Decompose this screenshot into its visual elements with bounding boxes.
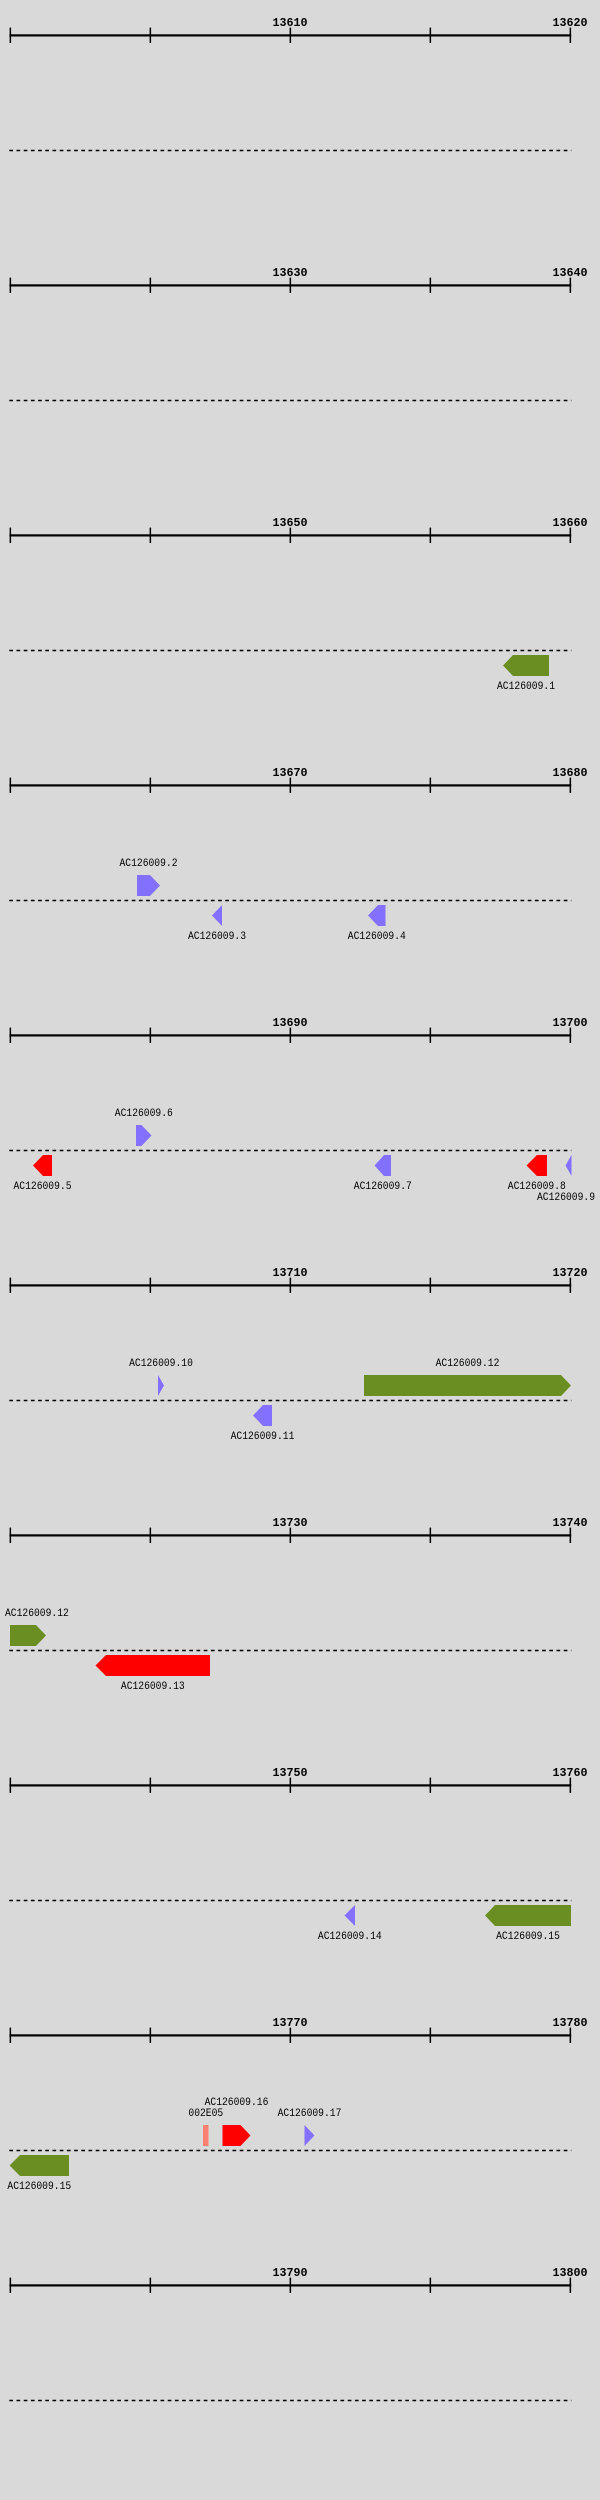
feature AC126009.3 (purple, reverse strand) [212, 905, 222, 926]
panel 10 ruler line and ticks [9, 2278, 571, 2293]
svg-text:13610: 13610 [273, 17, 308, 30]
panel 1 center dashed line [9, 150, 571, 152]
svg-text:AC126009.6: AC126009.6 [115, 1108, 173, 1120]
feature AC126009.5 (red, reverse strand) [33, 1155, 52, 1176]
svg-text:13630: 13630 [273, 267, 308, 280]
svg-text:AC126009.16: AC126009.16 [205, 2097, 269, 2109]
panel 3 center dashed line [9, 650, 571, 652]
feature AC126009.10 (purple, forward strand) [158, 1375, 164, 1396]
feature AC126009.9 (purple, reverse strand, clipped at panel edge) [566, 1155, 572, 1176]
feature AC126009.7 (purple, reverse strand) [375, 1155, 392, 1176]
svg-text:13660: 13660 [553, 517, 588, 530]
feature AC126009.4 (purple, reverse strand) [368, 905, 386, 926]
svg-text:13670: 13670 [273, 767, 308, 780]
panel 10 center dashed line [9, 2400, 571, 2402]
svg-text:AC126009.10: AC126009.10 [129, 1358, 193, 1370]
svg-text:13650: 13650 [273, 517, 308, 530]
feature AC126009.12 (green, forward strand, panel 7 segment) [10, 1625, 46, 1646]
panel 1 ruler line and ticks [9, 28, 571, 43]
svg-text:AC126009.11: AC126009.11 [231, 1431, 295, 1443]
svg-text:13730: 13730 [273, 1517, 308, 1530]
feature AC126009.13 (red, reverse strand) [96, 1655, 211, 1676]
feature AC126009.15 (green, reverse strand, panel 8 segment) [485, 1905, 571, 1926]
feature AC126009.17 (purple, forward strand) [305, 2125, 315, 2146]
panel 6 center dashed line [9, 1400, 571, 1402]
feature AC126009.11 (purple, reverse strand) [253, 1405, 272, 1426]
svg-text:13760: 13760 [553, 1767, 588, 1780]
panel 7 center dashed line [9, 1650, 571, 1652]
svg-text:13790: 13790 [273, 2267, 308, 2280]
panel 5 center dashed line [9, 1150, 571, 1152]
svg-text:AC126009.13: AC126009.13 [121, 1681, 185, 1693]
feature AC126009.14 (purple, reverse strand) [345, 1905, 356, 1926]
feature AC126009.6 (purple, forward strand) [136, 1125, 152, 1146]
panel 4 center dashed line [9, 900, 571, 902]
svg-text:AC126009.15: AC126009.15 [496, 1931, 560, 1943]
svg-text:13770: 13770 [273, 2017, 308, 2030]
feature AC126009.1 (green, reverse strand) [503, 655, 549, 676]
panel 2 ruler line and ticks [9, 278, 571, 293]
svg-text:002E05: 002E05 [188, 2108, 223, 2120]
svg-text:13680: 13680 [553, 767, 588, 780]
svg-text:AC126009.2: AC126009.2 [120, 858, 178, 870]
panel 9 center dashed line [9, 2150, 571, 2152]
svg-text:13740: 13740 [553, 1517, 588, 1530]
panel 5 ruler line and ticks [9, 1028, 571, 1043]
feature AC126009.8 (red, reverse strand) [527, 1155, 548, 1176]
svg-text:AC126009.7: AC126009.7 [354, 1181, 412, 1193]
svg-text:AC126009.12: AC126009.12 [436, 1358, 500, 1370]
panel 6 ruler line and ticks [9, 1278, 571, 1293]
svg-text:AC126009.15: AC126009.15 [7, 2181, 71, 2193]
svg-text:13720: 13720 [553, 1267, 588, 1280]
svg-text:13690: 13690 [273, 1017, 308, 1030]
panel 9 ruler line and ticks [9, 2028, 571, 2043]
svg-text:13710: 13710 [273, 1267, 308, 1280]
svg-text:AC126009.4: AC126009.4 [348, 931, 406, 943]
feature 002E05 (salmon marker) [203, 2125, 209, 2146]
svg-text:AC126009.12: AC126009.12 [5, 1608, 69, 1620]
svg-text:AC126009.3: AC126009.3 [188, 931, 246, 943]
svg-text:13620: 13620 [553, 17, 588, 30]
svg-text:13750: 13750 [273, 1767, 308, 1780]
svg-text:13780: 13780 [553, 2017, 588, 2030]
svg-text:AC126009.1: AC126009.1 [497, 681, 555, 693]
svg-text:AC126009.9: AC126009.9 [537, 1192, 595, 1204]
panel 8 ruler line and ticks [9, 1778, 571, 1793]
panel 4 ruler line and ticks [9, 778, 571, 793]
svg-text:AC126009.14: AC126009.14 [318, 1931, 382, 1943]
svg-text:13640: 13640 [553, 267, 588, 280]
feature AC126009.15 (green, reverse strand, panel 9 segment) [10, 2155, 69, 2176]
feature AC126009.12 (green, forward strand, panel 6 segment) [364, 1375, 571, 1396]
panel 7 ruler line and ticks [9, 1528, 571, 1543]
panel 8 center dashed line [9, 1900, 571, 1902]
svg-text:AC126009.17: AC126009.17 [278, 2108, 342, 2120]
panel 2 center dashed line [9, 400, 571, 402]
feature AC126009.2 (purple, forward strand) [137, 875, 160, 896]
feature AC126009.16 (red, forward strand) [223, 2125, 251, 2146]
panel 3 ruler line and ticks [9, 528, 571, 543]
svg-text:13700: 13700 [553, 1017, 588, 1030]
svg-text:AC126009.5: AC126009.5 [14, 1181, 72, 1193]
svg-text:13800: 13800 [553, 2267, 588, 2280]
